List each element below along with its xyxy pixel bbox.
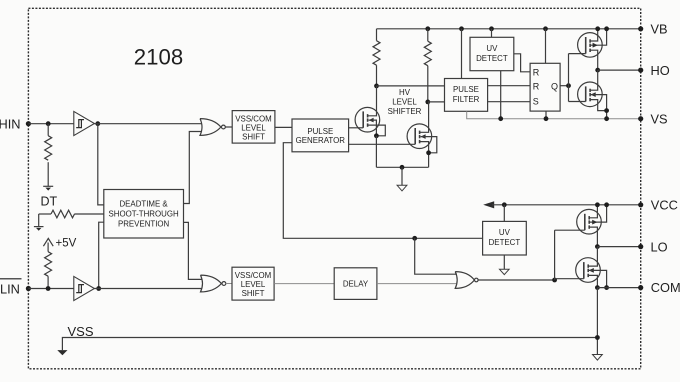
node VCC Q5 drain (595, 202, 600, 207)
rail VCC with arrow (483, 201, 641, 208)
ground VSS arrow (57, 350, 67, 355)
svg-text:FILTER: FILTER (453, 95, 480, 104)
wire deadtime upper out to NOR1 (184, 132, 203, 204)
svg-text:LO: LO (651, 239, 668, 254)
svg-text:COM: COM (651, 280, 680, 295)
node LIN pullup junction (46, 286, 51, 291)
svg-text:VSS: VSS (68, 324, 94, 339)
svg-text:PREVENTION: PREVENTION (118, 220, 170, 229)
wire VB to pulse filter top (461, 29, 463, 79)
svg-text:UV: UV (499, 228, 511, 237)
svg-text:DELAY: DELAY (343, 280, 369, 289)
svg-text:LEVEL: LEVEL (392, 97, 417, 106)
pin VS dot (638, 116, 643, 121)
svg-text:HIN: HIN (0, 117, 21, 132)
wire Q1 source to common rail (375, 136, 377, 168)
buffer U2 LIN schmitt (74, 276, 95, 300)
svg-text:SHIFT: SHIFT (242, 133, 265, 142)
block UV detect low (483, 221, 527, 255)
wire LIN to buffer (28, 288, 74, 290)
node Q4 source tie (604, 108, 609, 113)
node LO gate bus junction (552, 278, 557, 283)
resistor HIN pulldown (45, 124, 52, 187)
svg-text:VCC: VCC (651, 197, 678, 212)
svg-text:VB: VB (651, 22, 668, 37)
wire latch bottom to VS (545, 111, 547, 119)
ground DT (34, 214, 44, 231)
label HV LEVEL SHIFTER (388, 88, 422, 116)
wire hv shifter common rail (376, 166, 428, 168)
block pulse generator (292, 119, 349, 152)
node hv rail ground tap (400, 165, 405, 170)
wire deadtime lower out to NOR2 (184, 222, 203, 279)
node VB Q3 body (604, 26, 609, 31)
node VS uv tap (498, 116, 503, 121)
wire delay to NOR3 (377, 283, 457, 285)
wire uv detect bottom to VS (500, 71, 502, 119)
wire uv detect to latch R top (514, 54, 530, 72)
svg-text:PULSE: PULSE (307, 127, 333, 136)
svg-text:DT: DT (41, 195, 58, 209)
transistor Q3 high side pmos (569, 29, 607, 70)
svg-text:+5V: +5V (56, 237, 77, 249)
pin HIN dot (26, 121, 31, 126)
gate NOR3 low side (455, 272, 478, 289)
latch U3 RS (530, 63, 560, 111)
transistor Q5 low side pmos (555, 205, 607, 247)
pin VB dot (638, 26, 643, 31)
supply +5V pullup arrow (43, 238, 53, 251)
wire buffer1 branch to deadtime (98, 124, 104, 205)
rail VB (377, 28, 641, 30)
svg-text:SHOOT-THROUGH: SHOOT-THROUGH (109, 210, 179, 219)
resistor DT (39, 210, 104, 218)
node VB pulse filter top tap (459, 26, 464, 31)
block deadtime shoot-through prevention (104, 190, 184, 239)
wire VS rail (467, 111, 641, 118)
wire LO out (597, 246, 640, 248)
wire buffer1 out to NOR1 (94, 123, 202, 125)
buffer U1 HIN schmitt (74, 111, 95, 135)
wire buffer2 out to NOR2 (94, 288, 202, 290)
transistor Q2 hv level shift right (349, 102, 437, 167)
node VSS COM junction (595, 335, 600, 340)
wire NOR1 out (225, 126, 232, 128)
node VS Q4 tap (604, 116, 609, 121)
node COM Q6 body (604, 285, 609, 290)
block pulse filter (445, 79, 488, 112)
ground HIN pulldown (43, 186, 53, 190)
wire levelshift2 to delay (274, 283, 334, 285)
node B resistor R2 bottom (425, 100, 430, 105)
node Q1 source tie (374, 133, 379, 138)
resistor R2 hv pullup (424, 29, 431, 102)
node LIN buffer output (96, 286, 101, 291)
wire levelshift1 to pulse generator (275, 126, 292, 128)
wire COM down to VSS node (596, 288, 598, 355)
wire gate bus high side (568, 54, 570, 102)
wire node B to pulse filter (428, 101, 445, 103)
svg-text:S: S (533, 97, 539, 107)
node HIN pulldown junction (46, 121, 51, 126)
block VSS/COM level shift high (232, 111, 275, 144)
node A resistor R1 bottom (374, 84, 379, 89)
svg-text:DEADTIME &: DEADTIME & (119, 200, 168, 209)
svg-text:GENERATOR: GENERATOR (296, 136, 346, 145)
wire pulse generator feedback to low side (283, 143, 482, 239)
svg-text:LIN: LIN (0, 281, 20, 296)
wire VB to latch top (545, 29, 547, 64)
svg-text:UV: UV (486, 44, 498, 53)
ground COM arrow (593, 355, 603, 361)
wire COM out (597, 287, 640, 289)
resistor LIN pullup (45, 252, 52, 289)
wire VB to uv detect top (491, 29, 493, 38)
gate NOR2 low side input (201, 275, 226, 292)
svg-text:DETECT: DETECT (476, 54, 508, 63)
wire NOR3 out to gate bus (478, 279, 554, 281)
pin COM dot (638, 285, 643, 290)
block UV detect high (470, 37, 514, 70)
gate NOR1 high side (200, 119, 225, 136)
node COM Q6 source (595, 285, 600, 290)
transistor Q1 hv level shift left (349, 86, 386, 136)
svg-text:HO: HO (651, 63, 670, 78)
svg-text:SHIFTER: SHIFTER (388, 107, 422, 116)
block VSS/COM level shift low (232, 267, 274, 300)
svg-text:VSS/COM: VSS/COM (235, 271, 271, 280)
wire VSS rail (62, 338, 597, 351)
transistor Q4 high side nmos (569, 70, 607, 119)
svg-text:VS: VS (651, 112, 668, 127)
svg-text:LEVEL: LEVEL (241, 280, 266, 289)
pin LO dot (638, 244, 643, 249)
node VB resistor R2 tap (425, 26, 430, 31)
pin LIN dot (26, 286, 31, 291)
node HIN buffer output (95, 121, 100, 126)
wire NOR2 out (226, 283, 232, 285)
node VB Q3 drain (595, 26, 600, 31)
node feedback branch (412, 236, 417, 241)
svg-text:PULSE: PULSE (453, 85, 479, 94)
block delay (334, 268, 377, 300)
svg-text:Q: Q (551, 81, 558, 91)
node VS latch tap (544, 116, 549, 121)
node Q gate junction (566, 83, 571, 88)
wire gate bus low side (554, 230, 556, 280)
svg-text:R: R (533, 81, 540, 91)
node VB uv detect tap (489, 26, 494, 31)
wire pulse filter R output (488, 85, 530, 87)
ground hv shifter arrow (397, 167, 407, 191)
wire HIN to buffer (28, 123, 74, 125)
svg-text:DETECT: DETECT (489, 238, 521, 247)
wire pulse filter S output (488, 101, 530, 103)
wire VCC to uv detect low (503, 205, 505, 222)
wire feedback branch to NOR3 (415, 238, 457, 274)
ground uv detect low arrow (500, 255, 510, 275)
wire LIN branch to deadtime (99, 222, 104, 288)
pin HO dot (638, 68, 643, 73)
node Q2 source tie (426, 150, 431, 155)
wire latch Q output (560, 85, 568, 87)
node VCC uv tap (502, 202, 507, 207)
node HO junction (595, 68, 600, 73)
svg-text:HV: HV (399, 88, 411, 97)
resistor R1 hv pullup (373, 29, 380, 86)
svg-text:VSS/COM: VSS/COM (235, 114, 271, 123)
node VCC Q5 body (604, 202, 609, 207)
svg-text:SHIFT: SHIFT (242, 289, 265, 298)
node LO junction (595, 244, 600, 249)
svg-text:LEVEL: LEVEL (241, 123, 266, 132)
svg-text:2108: 2108 (134, 45, 183, 70)
wire HO out (598, 69, 641, 71)
node VB latch tap (543, 26, 548, 31)
wire node A to pulse filter (377, 85, 445, 87)
svg-text:R: R (533, 67, 540, 77)
transistor Q6 low side nmos (555, 247, 607, 288)
pin label LIN overline (0, 279, 22, 297)
pin VCC dot (638, 202, 643, 207)
